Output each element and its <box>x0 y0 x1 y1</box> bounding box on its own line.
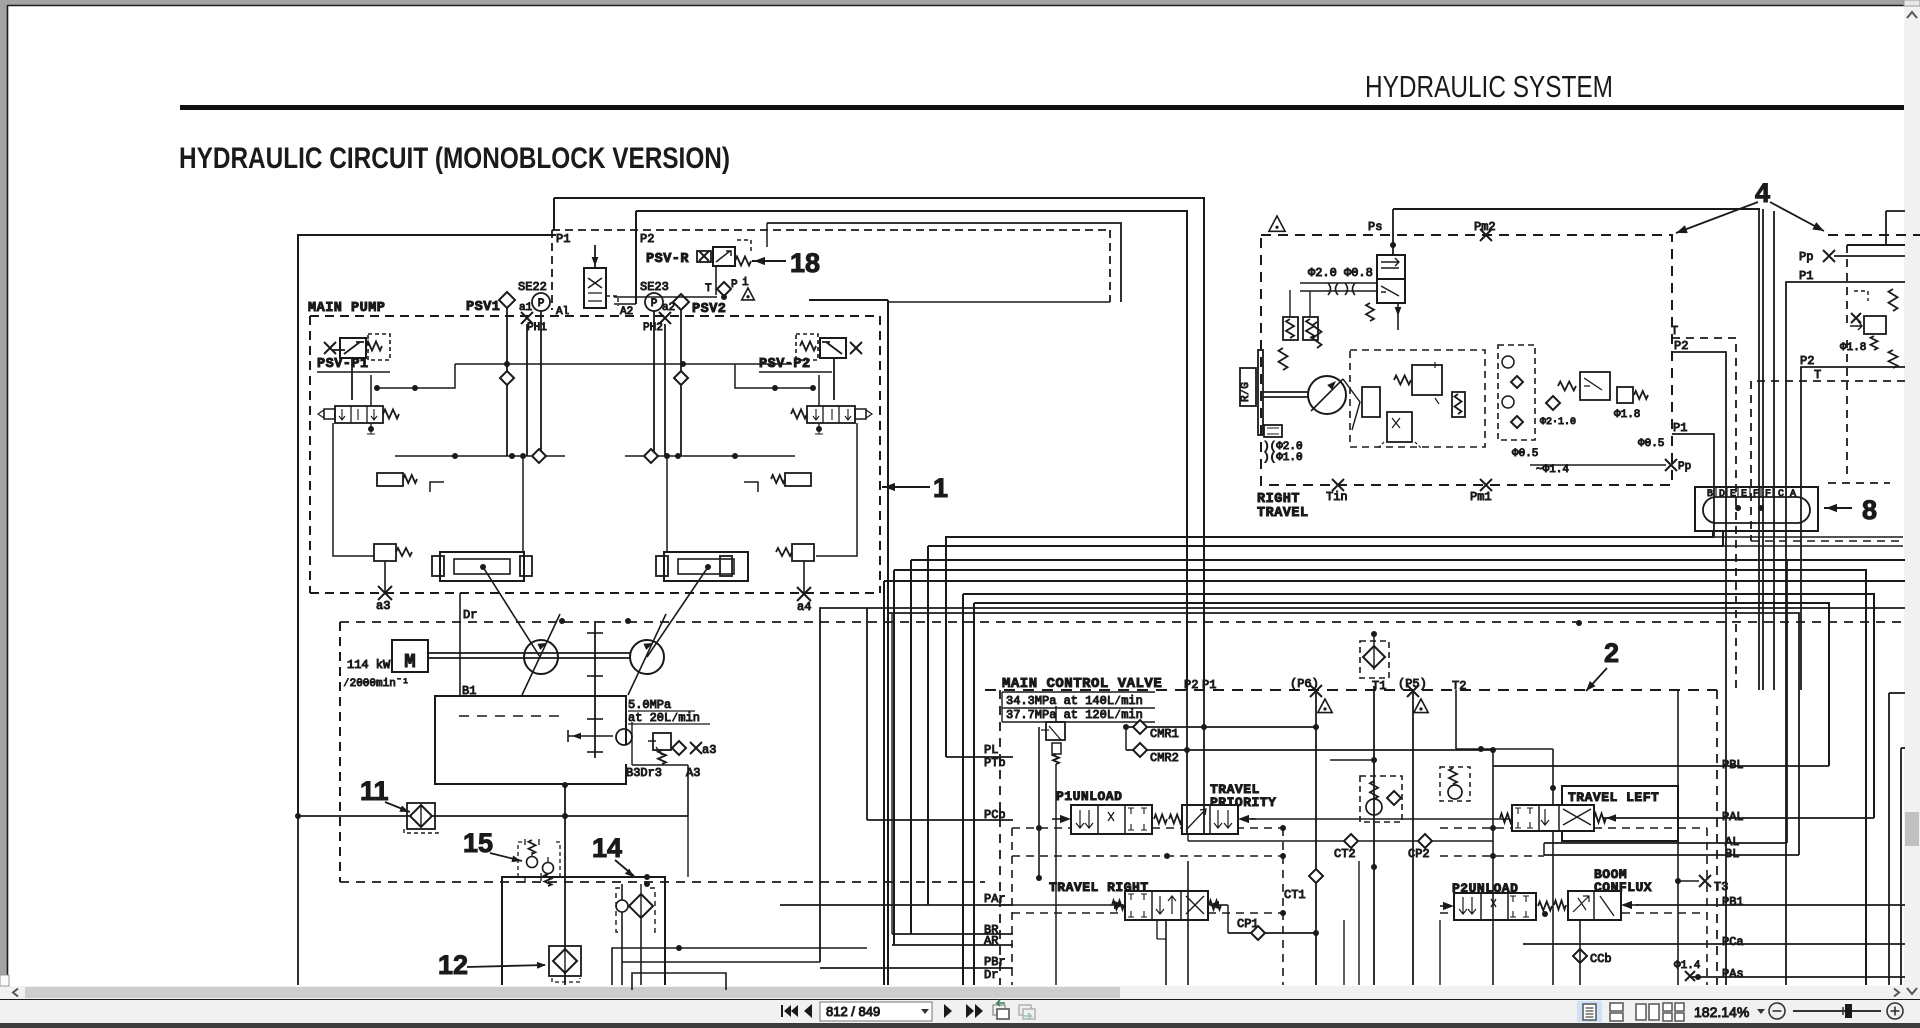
svg-text:F: F <box>1753 489 1759 500</box>
svg-text:CT2: CT2 <box>1334 847 1356 861</box>
travel motor <box>1263 391 1308 393</box>
svg-text:PL: PL <box>984 743 998 757</box>
long dashed drain line <box>340 621 1905 623</box>
CT2 CP2 <box>1187 834 1189 841</box>
CP1 <box>1227 905 1229 933</box>
callout 18 <box>752 260 786 262</box>
svg-text:CMR1: CMR1 <box>1150 727 1179 741</box>
svg-text:P: P <box>651 298 658 310</box>
svg-text:PAs: PAs <box>1722 967 1744 981</box>
svg-text:M: M <box>404 651 415 673</box>
svg-text:15: 15 <box>463 828 493 858</box>
svg-text:182.14%: 182.14% <box>1694 1004 1749 1020</box>
check valves pump outlets <box>500 371 514 385</box>
regulator valve right <box>807 406 855 423</box>
filter 11 line <box>298 815 688 817</box>
callout 8 <box>1824 507 1852 509</box>
svg-text:TRAVEL LEFT: TRAVEL LEFT <box>1568 790 1659 805</box>
svg-text:P2: P2 <box>640 232 654 246</box>
svg-text:P1: P1 <box>1799 269 1813 283</box>
drain a4 <box>797 587 811 601</box>
svg-text:a3: a3 <box>702 743 716 757</box>
gauge circle <box>616 729 632 745</box>
svg-text:PAr: PAr <box>984 892 1006 906</box>
Ps valve <box>1377 255 1405 279</box>
rt right valve <box>1580 372 1610 400</box>
pump 2 <box>630 640 664 674</box>
svg-text:B: B <box>1707 489 1713 500</box>
svg-text:)(Φ1.0: )(Φ1.0 <box>1263 452 1303 464</box>
rt inner dashed box <box>1350 350 1485 447</box>
svg-text:Pm2: Pm2 <box>1474 220 1496 234</box>
right travel dashed box <box>1261 235 1672 485</box>
svg-text:P2: P2 <box>1184 678 1198 692</box>
svg-text:Φ0.5: Φ0.5 <box>1638 438 1664 450</box>
svg-text:AR: AR <box>984 934 998 948</box>
svg-text:CT1: CT1 <box>1284 888 1306 902</box>
node PSV2 <box>673 294 689 310</box>
svg-text:F: F <box>1765 489 1771 500</box>
wire bundle L6 <box>963 594 1874 818</box>
svg-text:P1: P1 <box>1202 678 1216 692</box>
wire bundle L2 <box>928 531 1723 546</box>
CMR1 <box>1126 726 1316 728</box>
svg-text:T2: T2 <box>1452 679 1466 693</box>
svg-text:Ps: Ps <box>1368 220 1382 234</box>
svg-text:Dr: Dr <box>984 968 998 982</box>
svg-text:R⁄G: R⁄G <box>1240 382 1252 402</box>
P1/P2 pilot dashed box <box>552 229 1110 231</box>
svg-text:8: 8 <box>1862 495 1877 525</box>
svg-text:14: 14 <box>592 833 622 863</box>
svg-text:PSV-R: PSV-R <box>646 252 689 267</box>
svg-text:SE22: SE22 <box>518 280 547 294</box>
svg-text:at 20L⁄min: at 20L⁄min <box>628 711 700 725</box>
relief PL <box>1046 722 1065 740</box>
svg-text:A: A <box>1790 489 1796 500</box>
svg-text:2: 2 <box>1604 638 1619 668</box>
Tin Pm1 <box>1332 479 1344 491</box>
sub box 14 <box>502 877 665 985</box>
svg-text:PB1: PB1 <box>1722 895 1744 909</box>
valve PSV-P1 <box>340 338 366 358</box>
T2 line <box>1455 690 1457 749</box>
wire bundle L7 <box>974 603 1829 766</box>
svg-text:4: 4 <box>1755 178 1770 208</box>
svg-text:P2: P2 <box>1800 354 1814 368</box>
svg-text:PBL: PBL <box>1722 758 1744 772</box>
MCV dashed border <box>985 689 1717 691</box>
pilot cylinders a3 a4 <box>374 544 396 561</box>
dashed partitions <box>1012 827 1283 829</box>
svg-text:PBr: PBr <box>984 955 1006 969</box>
servo piston left <box>440 552 524 581</box>
R/G gear plate <box>1258 350 1263 435</box>
far right dashed box <box>1828 234 1920 236</box>
shaft <box>428 652 630 654</box>
svg-text:Φ1.8: Φ1.8 <box>1614 409 1640 421</box>
svg-text:12: 12 <box>438 950 468 980</box>
servo piston right <box>664 552 748 581</box>
svg-text:P1: P1 <box>556 232 570 246</box>
svg-text:PCa: PCa <box>1722 935 1744 949</box>
svg-text:Pp: Pp <box>1799 250 1813 264</box>
main pump dashed box <box>310 315 880 317</box>
svg-text:E: E <box>1730 489 1736 500</box>
CMR2 <box>1126 749 1493 751</box>
svg-text:CP1: CP1 <box>1237 917 1259 931</box>
wire bundle L1 <box>946 531 1713 757</box>
T1 vertical <box>1373 686 1375 985</box>
verticals center MCV <box>1186 690 1188 834</box>
gear shaft <box>594 621 596 758</box>
wire bundle L4 <box>894 570 1866 985</box>
x1678 vertical <box>1677 690 1679 985</box>
svg-text:PTb: PTb <box>984 756 1006 770</box>
drain a3 <box>378 586 392 600</box>
svg-text:5.0MPa: 5.0MPa <box>628 698 671 712</box>
svg-text:P: P <box>731 279 738 291</box>
svg-text:MAIN CONTROL VALVE: MAIN CONTROL VALVE <box>1002 676 1162 692</box>
svg-text:RIGHT: RIGHT <box>1257 492 1300 507</box>
svg-text:B3Dr3: B3Dr3 <box>626 766 662 780</box>
filter 11 <box>407 803 435 829</box>
svg-text:Pp: Pp <box>1678 461 1691 473</box>
svg-text:a4: a4 <box>797 600 811 614</box>
wire y608 <box>820 608 1905 962</box>
inner routing box <box>767 223 1121 302</box>
svg-text:18: 18 <box>790 248 820 278</box>
spring boxes <box>1283 317 1298 340</box>
svg-text:(P5): (P5) <box>1398 677 1427 691</box>
svg-text:PSV-P1: PSV-P1 <box>317 357 369 372</box>
node T P i <box>715 266 717 295</box>
svg-text:Φ2.0 Φ0.8: Φ2.0 Φ0.8 <box>1308 266 1373 280</box>
motor M <box>392 640 428 672</box>
svg-text:P2: P2 <box>1674 339 1688 353</box>
svg-text:T: T <box>1671 324 1678 338</box>
svg-text:CP2: CP2 <box>1408 847 1430 861</box>
svg-text:C: C <box>1778 489 1784 500</box>
svg-text:PH2: PH2 <box>643 322 663 334</box>
svg-text:P: P <box>538 298 545 310</box>
vertical x1039 <box>1038 727 1040 878</box>
svg-text:37.7MPa at 120L⁄min: 37.7MPa at 120L⁄min <box>1006 708 1143 722</box>
svg-text:T: T <box>705 283 712 295</box>
wire P2 top line <box>636 211 1187 690</box>
svg-text:PAL: PAL <box>1722 810 1744 824</box>
main pump outer box <box>298 235 556 816</box>
svg-text:P1: P1 <box>1673 421 1687 435</box>
svg-text:Al: Al <box>556 306 569 318</box>
long dashed line lower <box>340 881 985 883</box>
svg-text:~Φ1.4: ~Φ1.4 <box>1536 464 1569 476</box>
misc verticals bottom <box>1343 920 1345 985</box>
far right valve cluster <box>1864 316 1886 334</box>
left port lines <box>946 756 1013 758</box>
TRAVEL LEFT <box>1562 786 1678 841</box>
dashed pump case box <box>339 622 341 882</box>
svg-text:E: E <box>1741 489 1747 500</box>
svg-text:D: D <box>1719 489 1725 500</box>
pilot selector valve <box>584 268 606 308</box>
svg-text:P1UNLOAD: P1UNLOAD <box>1056 789 1122 804</box>
wire P1 top line <box>554 198 1204 690</box>
top filter MCV <box>1360 641 1389 678</box>
svg-text:T3: T3 <box>1714 880 1728 894</box>
svg-text:114 kW: 114 kW <box>347 658 391 672</box>
svg-text:a2: a2 <box>662 302 675 314</box>
svg-text:Dr: Dr <box>463 608 477 622</box>
svg-text:A2: A2 <box>620 306 633 318</box>
wire y948 <box>612 948 867 985</box>
svg-text:PH1: PH1 <box>527 322 547 334</box>
solenoid <box>1264 425 1282 437</box>
svg-text:HYDRAULIC CIRCUIT (MONOBLOCK V: HYDRAULIC CIRCUIT (MONOBLOCK VERSION) <box>179 142 730 175</box>
svg-text:812 / 849: 812 / 849 <box>826 1004 880 1019</box>
svg-text:TRAVEL: TRAVEL <box>1257 506 1309 521</box>
check TL <box>1440 767 1470 801</box>
wire bundle L3 <box>911 559 1905 561</box>
relief F1 <box>653 733 671 750</box>
tank box <box>435 696 626 784</box>
svg-text:11: 11 <box>360 776 389 806</box>
svg-text:Φ2·1.0: Φ2·1.0 <box>1540 417 1576 428</box>
P6 vertical <box>1315 691 1317 985</box>
sub box bottom <box>632 973 726 990</box>
far right solid box <box>1847 244 1905 246</box>
manifold block 8 <box>1695 487 1818 531</box>
svg-text:MAIN PUMP: MAIN PUMP <box>308 301 385 316</box>
wire bundle L5 <box>884 580 1905 582</box>
svg-text:HYDRAULIC SYSTEM: HYDRAULIC SYSTEM <box>1365 69 1613 104</box>
callout 1 <box>882 486 930 488</box>
PB1 line <box>1636 904 1905 906</box>
svg-text:1: 1 <box>933 473 948 503</box>
rt valve stack <box>1498 345 1535 440</box>
svg-text:34.3MPa at 140L⁄min: 34.3MPa at 140L⁄min <box>1006 694 1143 708</box>
svg-text:CMR2: CMR2 <box>1150 751 1179 765</box>
svg-text:BL: BL <box>1725 847 1739 861</box>
svg-text:SE23: SE23 <box>640 280 669 294</box>
svg-text:Pm1: Pm1 <box>1470 490 1492 504</box>
pump 1 <box>524 640 558 674</box>
svg-text:Tin: Tin <box>1326 490 1348 504</box>
svg-text:CCb: CCb <box>1590 952 1612 966</box>
svg-text:PSV1: PSV1 <box>466 300 500 315</box>
long verticals into manifold <box>1758 209 1760 690</box>
svg-text:a3: a3 <box>376 599 390 613</box>
svg-text:T: T <box>1814 368 1821 382</box>
right edge verticals <box>1886 210 1905 212</box>
check pair 15 <box>527 857 538 868</box>
svg-text:⁄2000minˉ¹: ⁄2000minˉ¹ <box>343 678 409 690</box>
filter 12 <box>549 946 581 976</box>
wire y613 <box>889 613 1799 855</box>
svg-text:Φ0.5: Φ0.5 <box>1512 448 1538 460</box>
CCb <box>1573 949 1587 963</box>
filter+check 14 <box>616 888 655 932</box>
valve PSV-P2 <box>820 338 846 358</box>
svg-text:PSV2: PSV2 <box>692 302 726 317</box>
svg-text:Φ1.8: Φ1.8 <box>1840 342 1866 354</box>
P5 vertical <box>1412 691 1414 985</box>
regulator valve left <box>335 406 383 423</box>
